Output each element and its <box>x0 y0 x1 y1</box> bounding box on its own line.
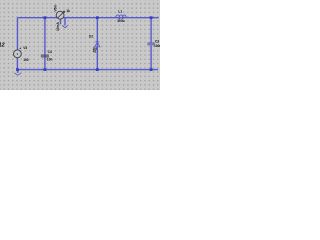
svg-text:10mA: 10mA <box>56 21 60 31</box>
junction top D2 <box>96 16 99 19</box>
wire C3 top lead <box>148 18 154 43</box>
wire ground stem G1 <box>15 70 21 73</box>
svg-text:V3: V3 <box>23 46 27 50</box>
source V3 circle <box>14 50 22 58</box>
source V1 circle <box>56 11 64 19</box>
V3 center mark <box>17 53 18 54</box>
svg-text:10n: 10n <box>47 58 53 62</box>
junction bottom V3 <box>16 68 19 71</box>
svg-text:100: 100 <box>23 58 29 62</box>
V1 arrow <box>58 11 65 18</box>
svg-text:C3: C3 <box>155 40 159 44</box>
diode D2 triangle <box>95 42 100 47</box>
svg-text:41: 41 <box>93 49 97 53</box>
junction bottom D2 <box>96 68 99 71</box>
wire C3 bottom lead <box>148 45 154 69</box>
junction top C4 <box>44 16 47 19</box>
ground arrow near V1 <box>62 25 68 27</box>
wire top net <box>17 15 158 21</box>
wire V1 bottom stub <box>58 19 64 24</box>
junction bottom C3 <box>150 68 153 71</box>
capacitor C3 plates <box>147 43 154 45</box>
wire left column V3 top lead <box>15 18 21 50</box>
junction bottom C4 <box>44 68 47 71</box>
diode D2 cathode bar <box>95 40 99 43</box>
capacitor C4 plates <box>41 55 49 57</box>
svg-text:100n: 100n <box>154 44 160 48</box>
inductor L1 <box>116 15 127 19</box>
svg-text:V5m: V5m <box>54 5 58 12</box>
svg-text:300u: 300u <box>117 19 124 23</box>
wire ground stem near V1 <box>62 18 68 26</box>
wire bottom net (ground rail) <box>17 67 158 73</box>
svg-text:1k: 1k <box>66 9 70 13</box>
junction top C3 <box>150 16 153 19</box>
svg-text:12: 12 <box>0 43 5 49</box>
wire C4 column <box>42 18 48 70</box>
ground G1 <box>14 73 21 75</box>
wire V3 bottom lead <box>15 58 21 70</box>
wire D2 column <box>95 18 101 70</box>
svg-text:C4: C4 <box>48 50 52 54</box>
V3 polarity mark <box>20 48 22 50</box>
svg-text:D2: D2 <box>89 35 93 39</box>
svg-text:L1: L1 <box>118 10 122 14</box>
